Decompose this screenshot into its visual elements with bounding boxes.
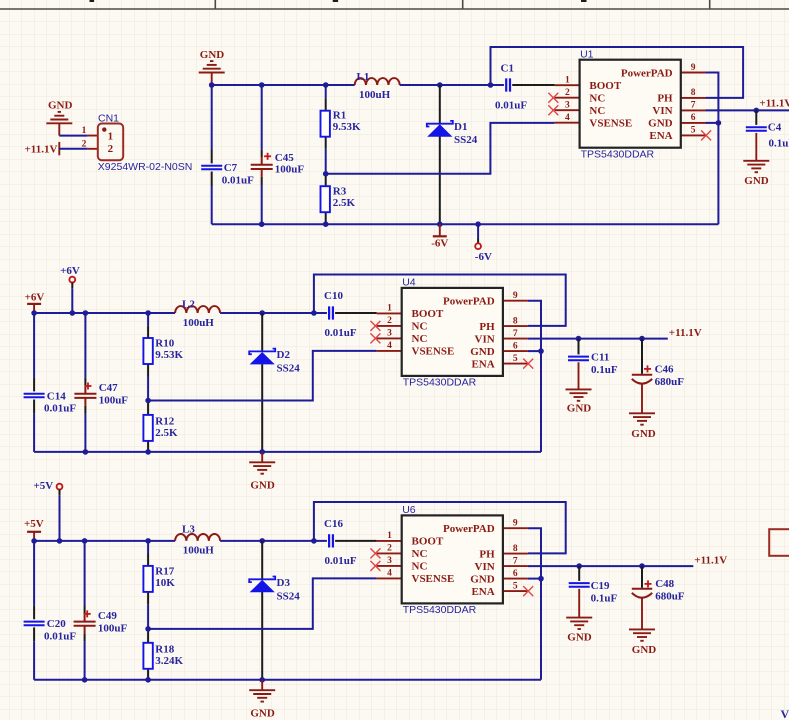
- resistor R12 2.5K: [143, 401, 178, 452]
- capacitor C11 0.1uF: [568, 339, 618, 390]
- node: output junctions circuit 2: [576, 336, 645, 342]
- svg-text:100uH: 100uH: [359, 89, 391, 101]
- svg-text:D3: D3: [277, 577, 291, 589]
- capacitor C10 0.01uF (boot): [324, 290, 377, 339]
- capacitor C19 0.1uF: [569, 566, 618, 618]
- resistor R3 2.5K: [321, 174, 356, 224]
- svg-text:-6V: -6V: [475, 251, 492, 263]
- svg-text:R10: R10: [155, 338, 174, 350]
- ground GND (under C19): [566, 618, 592, 644]
- svg-text:GND: GND: [48, 100, 73, 112]
- svg-text:C20: C20: [47, 618, 66, 630]
- svg-text:0.1uF: 0.1uF: [591, 364, 618, 376]
- ground GND (under C48): [629, 629, 656, 656]
- ground GND (under C46): [629, 413, 656, 440]
- svg-text:L3: L3: [182, 524, 195, 536]
- svg-text:CN1: CN1: [98, 112, 119, 124]
- wire: PowerPAD/GND down to ground rail circuit 3: [528, 528, 541, 680]
- ground GND (under C11): [566, 389, 592, 414]
- svg-text:D1: D1: [454, 121, 467, 133]
- svg-text:C19: C19: [591, 580, 610, 592]
- wire: GND pin 6 stub circuit 3: [528, 578, 541, 580]
- svg-text:0.1uF: 0.1uF: [591, 592, 618, 604]
- svg-text:100uH: 100uH: [183, 545, 215, 557]
- svg-text:C47: C47: [99, 382, 118, 394]
- wire: +6V rail circuit 2: [34, 312, 327, 314]
- svg-text:SS24: SS24: [277, 590, 301, 602]
- wire: PowerPAD/GND down to -6V rail: [706, 73, 719, 225]
- svg-text:1: 1: [108, 131, 114, 143]
- svg-text:680uF: 680uF: [655, 376, 685, 388]
- connector (clipped at right edge): [769, 529, 789, 556]
- svg-text:C45: C45: [275, 152, 294, 164]
- svg-text:3.24K: 3.24K: [155, 655, 183, 667]
- power port +5V (circle style): [33, 480, 62, 541]
- svg-text:0.1uF: 0.1uF: [769, 137, 789, 149]
- svg-text:0.01uF: 0.01uF: [44, 630, 76, 642]
- svg-text:GND: GND: [200, 49, 225, 61]
- ground GND (under C4): [743, 161, 769, 187]
- node: pin6 junction circuit 3: [538, 576, 544, 582]
- wire: PH boot loop circuit 3: [314, 502, 566, 553]
- svg-text:C48: C48: [655, 578, 674, 590]
- node: rail junctions circuit 2: [31, 310, 316, 316]
- sheet border: clipped zone numerals: [90, 0, 95, 2]
- wire: +11.1V to CN1 pin 2: [59, 148, 87, 150]
- inductor L2 100uH: [175, 299, 220, 330]
- svg-text:SS24: SS24: [277, 362, 301, 374]
- node: bottom rail junctions circuit 2: [83, 449, 265, 455]
- ground GND (circuit 3 rail): [249, 680, 275, 720]
- svg-text:C11: C11: [591, 351, 609, 363]
- svg-text:+11.1V: +11.1V: [694, 555, 727, 567]
- wire: input rail circuit 1: [212, 84, 491, 86]
- capacitor C48 680uF (polarized): [632, 566, 685, 629]
- svg-text:10K: 10K: [155, 577, 175, 589]
- IC U1 TPS5430DDAR: [548, 48, 711, 160]
- node: feedback divider junction circuit 3: [145, 626, 151, 632]
- svg-text:100uH: 100uH: [183, 317, 215, 329]
- svg-text:-6V: -6V: [431, 238, 448, 250]
- wire: VSENSE feedback circuit 3: [148, 578, 377, 629]
- svg-text:9.53K: 9.53K: [155, 349, 183, 361]
- svg-text:2: 2: [108, 143, 114, 155]
- node: feedback divider junction circuit 1: [323, 171, 329, 177]
- node: C4 junction: [754, 108, 760, 114]
- inductor L1 100uH: [355, 71, 400, 101]
- power port -6V (bar style): [431, 224, 448, 249]
- svg-text:2.5K: 2.5K: [333, 197, 356, 209]
- svg-text:SS24: SS24: [454, 134, 478, 146]
- svg-text:2.5K: 2.5K: [155, 427, 178, 439]
- svg-text:GND: GND: [567, 632, 592, 644]
- resistor R17 10K: [143, 541, 175, 629]
- svg-text:GND: GND: [744, 175, 769, 187]
- svg-text:+11.1V: +11.1V: [25, 143, 58, 155]
- resistor R1 9.53K: [321, 85, 362, 174]
- wire: PowerPAD/GND down to ground rail circuit 2: [528, 301, 541, 452]
- wire: VSENSE feedback circuit 1: [326, 123, 555, 174]
- wire: GND pin 6 stub: [706, 122, 719, 124]
- wire: -6V bottom rail circuit 1: [212, 223, 719, 225]
- svg-text:U6: U6: [402, 504, 416, 516]
- svg-text:+11.1V: +11.1V: [669, 327, 702, 339]
- svg-text:+11.1V: +11.1V: [760, 98, 789, 110]
- wire: GND pin 6 stub circuit 2: [528, 350, 541, 352]
- svg-text:L1: L1: [357, 71, 370, 83]
- svg-text:X9254WR-02-N0SN: X9254WR-02-N0SN: [98, 161, 193, 173]
- capacitor C7 0.01uF: [201, 85, 254, 224]
- node: pin6 junction circuit 2: [538, 348, 544, 354]
- svg-text:D2: D2: [277, 349, 291, 361]
- svg-text:+5V: +5V: [24, 518, 44, 530]
- power port +6V (circle style): [60, 265, 80, 313]
- diode D1 SS24: [427, 85, 478, 224]
- capacitor C47 100uF (polarized): [74, 313, 128, 452]
- svg-text:C10: C10: [324, 290, 343, 302]
- wire: ground bottom rail circuit 3: [34, 679, 541, 681]
- node: bottom rail junctions circuit 3: [82, 677, 265, 683]
- wire: PH boot loop circuit 1: [491, 47, 744, 98]
- wire: VSENSE feedback circuit 2: [148, 351, 377, 401]
- svg-text:GND: GND: [567, 403, 592, 415]
- svg-text:R17: R17: [155, 566, 174, 578]
- svg-text:R12: R12: [155, 415, 174, 427]
- svg-text:100uF: 100uF: [98, 622, 128, 634]
- wire: +5V rail circuit 3: [34, 540, 327, 542]
- svg-text:0.01uF: 0.01uF: [495, 99, 527, 111]
- svg-text:U4: U4: [402, 277, 416, 289]
- sheet border: zone dividers: [215, 0, 709, 9]
- svg-text:C14: C14: [47, 390, 66, 402]
- capacitor C46 680uF (polarized): [632, 339, 684, 414]
- capacitor C4 0.1uF: [746, 110, 789, 160]
- IC U6 TPS5430DDAR: [370, 504, 533, 616]
- sheet border: bottom line of title zone row: [0, 8, 789, 10]
- capacitor C45 100uF (polarized): [251, 85, 305, 224]
- node: rail junctions circuit 1: [209, 82, 493, 88]
- svg-text:C49: C49: [98, 610, 117, 622]
- wire: VIN +11.1V output circuit 2: [528, 338, 668, 340]
- capacitor C1 0.01uF (boot): [491, 63, 555, 112]
- svg-text:R3: R3: [333, 185, 347, 197]
- power port +5V (bar style): [24, 518, 44, 541]
- svg-text:+6V: +6V: [60, 265, 80, 277]
- svg-text:+5V: +5V: [33, 480, 53, 492]
- resistor R10 9.53K: [143, 313, 183, 401]
- ground GND (circuit 2 rail): [249, 452, 275, 492]
- svg-text:680uF: 680uF: [655, 591, 685, 603]
- diode D2 SS24: [249, 313, 300, 452]
- connector CN1 X9254WR-02-N0SN: [82, 112, 193, 173]
- wire: VIN +11.1V output circuit 1: [706, 109, 789, 111]
- svg-text:R18: R18: [155, 643, 174, 655]
- capacitor C16 0.01uF (boot): [324, 518, 377, 567]
- svg-text:1: 1: [82, 126, 87, 136]
- inductor L3 100uH: [175, 524, 220, 557]
- svg-text:0.01uF: 0.01uF: [325, 327, 357, 339]
- resistor R18 3.24K: [143, 629, 183, 680]
- svg-text:C4: C4: [768, 122, 782, 134]
- svg-text:9.53K: 9.53K: [333, 121, 361, 133]
- node: rail junctions circuit 3: [31, 538, 316, 544]
- svg-text:V: V: [781, 707, 789, 720]
- svg-text:GND: GND: [250, 708, 275, 720]
- capacitor C20 0.01uF: [24, 541, 77, 680]
- svg-text:R1: R1: [333, 110, 346, 122]
- node: pin6 junction: [716, 120, 722, 126]
- svg-text:+6V: +6V: [25, 292, 45, 304]
- svg-text:L2: L2: [182, 299, 195, 311]
- svg-text:U1: U1: [580, 48, 594, 60]
- wire: PH boot loop circuit 2: [314, 275, 566, 326]
- svg-text:GND: GND: [631, 428, 656, 440]
- ground GND (power port at CN1 pin 1): [46, 100, 72, 136]
- node: output junctions circuit 3: [576, 563, 644, 569]
- IC U4 TPS5430DDAR: [370, 277, 533, 389]
- svg-text:2: 2: [82, 139, 87, 149]
- svg-text:0.01uF: 0.01uF: [222, 174, 254, 186]
- node: bottom rail junctions circuit 1: [259, 221, 481, 227]
- svg-text:C46: C46: [655, 364, 674, 376]
- svg-text:C1: C1: [501, 63, 514, 75]
- power port +6V (bar style): [25, 292, 45, 313]
- power port +11.1V (bar style): [25, 142, 60, 156]
- wire: ground bottom rail circuit 2: [34, 451, 541, 453]
- svg-text:GND: GND: [632, 644, 657, 656]
- svg-text:GND: GND: [250, 480, 275, 492]
- svg-text:0.01uF: 0.01uF: [44, 402, 76, 414]
- svg-text:100uF: 100uF: [275, 163, 305, 175]
- ground GND (top of circuit 1): [199, 49, 225, 85]
- svg-text:C7: C7: [224, 162, 238, 174]
- wire: GND to CN1 pin 1: [59, 135, 87, 137]
- wire: VIN +11.1V output circuit 3: [528, 565, 693, 567]
- svg-text:0.01uF: 0.01uF: [325, 555, 357, 567]
- power port -6V (circle style): [475, 224, 492, 263]
- capacitor C14 0.01uF: [24, 313, 77, 452]
- diode D3 SS24: [249, 541, 300, 680]
- svg-text:100uF: 100uF: [99, 394, 129, 406]
- node: feedback divider junction circuit 2: [145, 398, 151, 404]
- svg-text:C16: C16: [324, 518, 343, 530]
- capacitor C49 100uF (polarized): [74, 541, 128, 680]
